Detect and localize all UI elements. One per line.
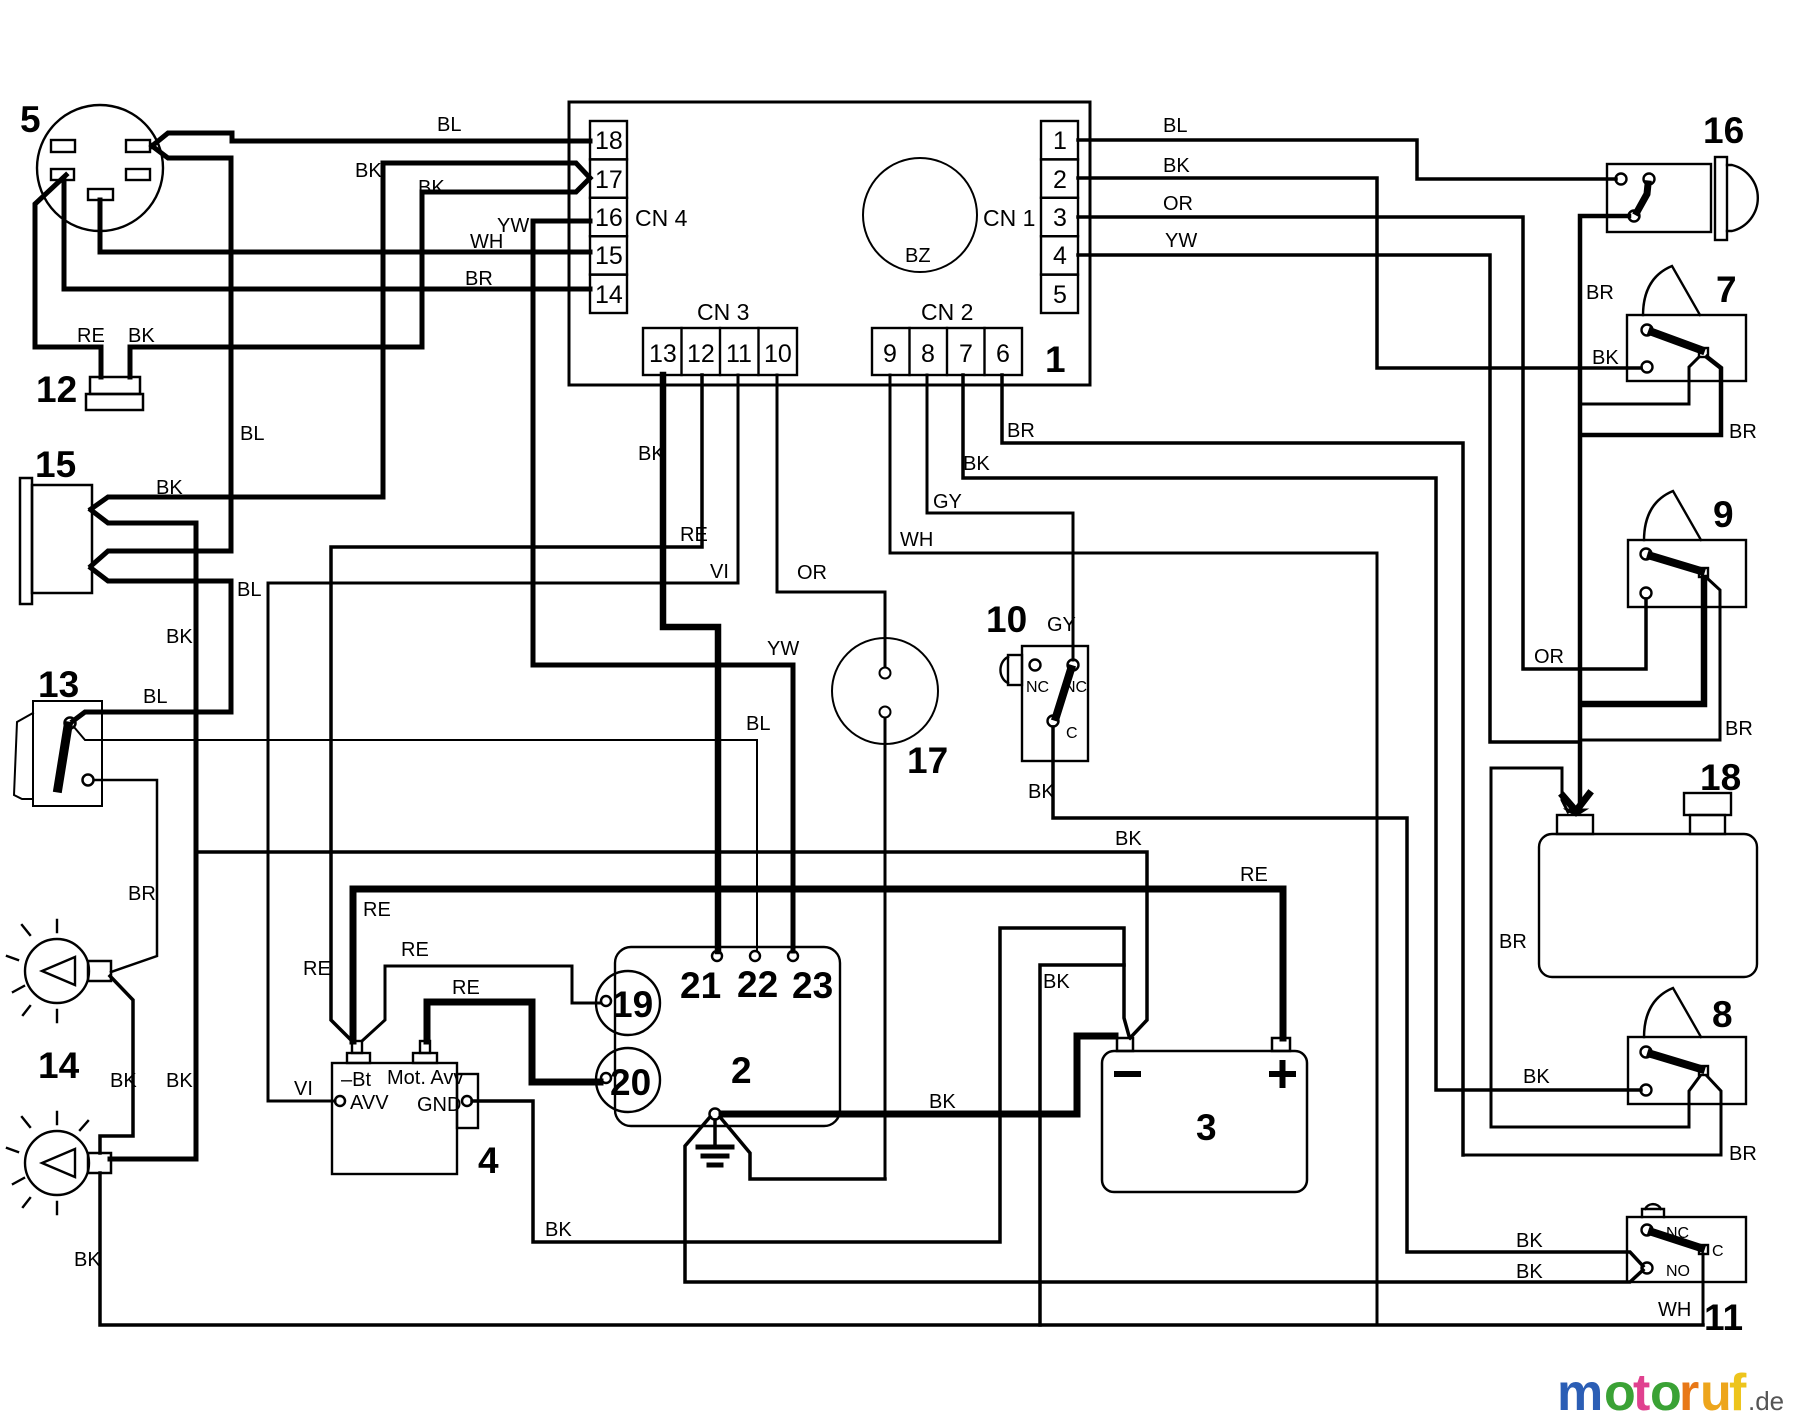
wire BR switch8 left leg to tank18 [1491,768,1689,1127]
svg-text:OR: OR [1534,646,1564,668]
svg-text:10: 10 [764,340,792,368]
svg-text:19: 19 [612,984,653,1025]
svg-text:BK: BK [74,1249,101,1271]
svg-text:RE: RE [1240,864,1268,886]
wire BK long to battery minus [196,852,1147,1038]
battery 3 [1102,1038,1307,1192]
svg-text:21: 21 [680,965,721,1006]
wire BK lamp14a to lamp14b [100,976,133,1153]
svg-text:BR: BR [128,883,156,905]
svg-text:BR: BR [1499,931,1527,953]
wire WH riser to switch11 C [1702,1254,1705,1325]
svg-text:BK: BK [1163,155,1190,177]
svg-text:BK: BK [1592,347,1619,369]
svg-text:4: 4 [1053,242,1067,270]
svg-text:8: 8 [921,340,935,368]
svg-text:YW: YW [767,638,799,660]
svg-text:t: t [1633,1364,1650,1420]
svg-text:12: 12 [687,340,715,368]
wire BL CN1-1 to key16 [1078,140,1616,179]
svg-text:5: 5 [20,99,41,140]
svg-text:1: 1 [1053,127,1067,155]
svg-text:VI: VI [294,1078,313,1100]
svg-text:BR: BR [1729,1143,1757,1165]
svg-text:RE: RE [401,939,429,961]
svg-text:BK: BK [156,477,183,499]
wire BK CN2-7 to switch8 [963,375,1641,1090]
svg-text:RE: RE [363,899,391,921]
wire VI CN3-11 to relay4 AVV [268,375,738,1101]
watermark motoruf.de [1557,1364,1784,1420]
svg-text:2: 2 [1053,166,1067,194]
wire BK ground tent left to switch11 NO [685,1117,1643,1282]
svg-text:C: C [1712,1243,1724,1260]
svg-text:.de: .de [1748,1386,1784,1416]
wire BR CN2-6 to switch8 leg [1002,375,1463,1155]
connector CN4 [590,121,688,313]
wire BK CN1-2 to switch7 [1078,178,1641,368]
svg-text:20: 20 [610,1062,651,1103]
svg-text:GND: GND [417,1094,461,1116]
svg-text:BR: BR [1725,718,1753,740]
engine unit 2 [615,947,840,1126]
plug 17 [832,638,948,781]
svg-text:CN 4: CN 4 [635,205,688,231]
wire BR branch to switch7 left leg [1580,357,1699,404]
wire BR switch7 right leg [1581,357,1721,435]
wire WH connector5 to CN4-15 [100,200,590,252]
wire BK bottom bus lamp14b to switch11 C [100,1173,1703,1325]
wire BL connector5 down to buzzer15 [91,146,231,566]
buzzer BZ [863,158,977,272]
svg-text:VI: VI [710,561,729,583]
svg-text:RE: RE [680,524,708,546]
wire BR connector5 to CN4-14 [64,181,590,289]
connector CN1 [983,121,1078,313]
svg-text:6: 6 [996,340,1010,368]
ground symbol [698,1109,732,1166]
svg-text:f: f [1729,1364,1747,1420]
wire RE CN3-12 to relay4 [331,375,702,1041]
wire BK engine2 ground to battery minus thick [722,1036,1115,1114]
wire RE relay4 to terminal19 [362,966,600,1041]
horn 12 [36,369,143,410]
svg-text:RE: RE [452,977,480,999]
svg-text:9: 9 [883,340,897,368]
wire OR CN1-3 to switch9 [1078,217,1646,669]
switch 9 [1628,491,1746,607]
svg-text:WH: WH [900,529,933,551]
svg-text:5: 5 [1053,281,1067,309]
svg-text:–Bt: –Bt [341,1069,371,1091]
svg-text:o: o [1650,1364,1682,1420]
svg-text:9: 9 [1713,494,1734,535]
svg-text:2: 2 [731,1050,752,1091]
connector CN2 [872,299,1022,375]
terminal 20 [596,1048,660,1112]
svg-text:BK: BK [110,1070,137,1092]
key lamp 16 [1607,110,1758,240]
svg-text:o: o [1604,1364,1636,1420]
wire BK horn12 to CN4-17 [130,178,590,377]
wire BK ground tent right to plug17 [720,1117,885,1179]
svg-text:BL: BL [1163,115,1187,137]
wire BR switch8 left leg vertical [1689,1076,1700,1127]
svg-text:BL: BL [240,423,264,445]
wire WH CN2-9 to seat switch [890,375,1377,1325]
svg-text:BK: BK [166,1070,193,1092]
svg-text:BK: BK [1523,1066,1550,1088]
lamp 14b [7,1112,111,1214]
wire BL switch13 to pin22 [74,727,757,951]
svg-text:1: 1 [1045,339,1066,380]
svg-text:17: 17 [595,166,623,194]
svg-text:14: 14 [595,281,623,309]
svg-text:BR: BR [1729,421,1757,443]
svg-text:4: 4 [478,1140,499,1181]
svg-text:NC: NC [1064,679,1087,696]
svg-text:NC: NC [1666,1225,1689,1242]
svg-text:BZ: BZ [905,245,931,267]
svg-text:BR: BR [1007,420,1035,442]
svg-text:CN 2: CN 2 [921,299,973,325]
wire BL switch13 to buzzer15 [73,568,231,721]
wire BK plug17 down [884,718,887,1179]
wire BR switch9 thick output [1582,578,1704,704]
svg-text:12: 12 [36,369,77,410]
terminal 19 [596,971,660,1035]
svg-text:13: 13 [649,340,677,368]
svg-text:18: 18 [595,127,623,155]
svg-text:3: 3 [1053,204,1067,232]
wire RE bus relay4 to battery plus [353,889,1283,1041]
svg-text:7: 7 [959,340,973,368]
connector 5 [20,99,163,231]
svg-text:13: 13 [38,664,79,705]
svg-text:m: m [1557,1364,1603,1420]
buzzer 15 [20,444,92,604]
wire BR switch9 thin output [1582,578,1720,740]
svg-text:CN 3: CN 3 [697,299,749,325]
svg-text:8: 8 [1712,994,1733,1035]
svg-text:BR: BR [1586,282,1614,304]
switch 7 [1627,266,1746,381]
wire RE thick to terminal20 [427,1002,600,1082]
svg-text:r: r [1679,1364,1699,1420]
seat switch 11 [1627,1204,1746,1338]
svg-text:18: 18 [1700,757,1741,798]
svg-text:BK: BK [929,1091,956,1113]
svg-text:Mot. Avv: Mot. Avv [387,1067,463,1089]
svg-text:C: C [1066,725,1078,742]
svg-text:u: u [1700,1364,1732,1420]
svg-text:RE: RE [303,958,331,980]
svg-text:BK: BK [418,177,445,199]
svg-text:10: 10 [986,599,1027,640]
svg-text:GY: GY [933,491,962,513]
svg-text:BL: BL [143,686,167,708]
wire GY CN2-8 to microswitch10 [927,375,1073,660]
wire YW CN4-16 to pin23 [533,221,793,951]
svg-text:22: 22 [737,964,778,1005]
svg-text:BK: BK [638,443,665,465]
svg-text:BL: BL [237,579,261,601]
svg-text:BK: BK [128,325,155,347]
tank 18 [1539,757,1757,977]
lamp 14a [7,920,111,1086]
svg-text:AVV: AVV [350,1092,389,1114]
svg-text:RE: RE [77,325,105,347]
svg-text:BK: BK [963,453,990,475]
wire RE CN3-13 to pin21 [663,375,718,951]
svg-text:OR: OR [797,562,827,584]
svg-text:15: 15 [35,444,76,485]
control unit box 1 [569,102,1090,385]
svg-text:BK: BK [1043,971,1070,993]
svg-text:BK: BK [1028,781,1055,803]
microswitch 10 [986,599,1088,761]
wire YW CN1-4 to tank18 [1078,255,1578,742]
svg-text:BK: BK [1516,1230,1543,1252]
wire BK buzzer15 to CN4-17 [91,163,590,509]
switch 8 [1628,988,1746,1104]
wire BK corner link [1040,965,1124,1325]
svg-text:YW: YW [1165,230,1197,252]
svg-text:NO: NO [1666,1263,1690,1280]
svg-text:11: 11 [726,340,752,368]
wire OR CN3-10 to plug17 [777,375,885,667]
wire BR switch8 right leg [1463,1076,1721,1155]
svg-text:15: 15 [595,242,623,270]
svg-text:BR: BR [465,268,493,290]
wire BK buzzer15 to lamp14b [91,510,196,1159]
svg-text:BL: BL [437,114,461,136]
svg-text:BK: BK [355,160,382,182]
svg-text:WH: WH [470,231,503,253]
svg-text:3: 3 [1196,1107,1217,1148]
svg-text:BK: BK [545,1219,572,1241]
arrowhead into tank18 [1563,794,1589,811]
svg-text:WH: WH [1658,1299,1691,1321]
svg-text:7: 7 [1716,269,1737,310]
svg-text:11: 11 [1704,1297,1743,1338]
svg-text:23: 23 [792,965,833,1006]
svg-text:BK: BK [166,626,193,648]
svg-text:BK: BK [1115,828,1142,850]
svg-text:OR: OR [1163,193,1193,215]
wire BR key16 down to tank18 arrow [1580,216,1629,805]
wire labels [74,114,1757,1321]
svg-text:BK: BK [1516,1261,1543,1283]
starter relay 4 [332,1041,499,1181]
wire BK relay4 GND to battery minus [472,928,1129,1242]
svg-text:17: 17 [907,740,948,781]
connector CN3 [643,299,797,375]
switch 13 [14,664,102,806]
svg-text:14: 14 [38,1045,80,1086]
svg-text:CN 1: CN 1 [983,205,1035,231]
svg-text:16: 16 [595,204,623,232]
wire BL connector5 to CN4-18 [152,133,590,146]
svg-text:BL: BL [746,713,770,735]
wire BK microswitch10 to switch11 NO [1053,727,1643,1266]
svg-text:16: 16 [1703,110,1744,151]
wire BR switch13 to lamp14a [94,780,157,972]
wire RE connector5 to horn12 [35,175,101,377]
svg-text:NC: NC [1026,679,1049,696]
